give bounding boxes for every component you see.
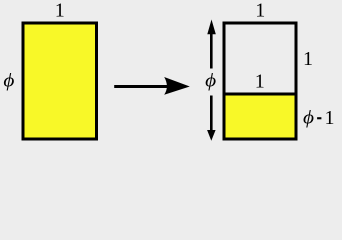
svg-text:ϕ: ϕ	[3, 70, 14, 91]
svg-text:ϕ: ϕ	[303, 107, 314, 128]
svg-text:1: 1	[325, 107, 335, 129]
divider line (splits unit square from remainder)	[223, 93, 298, 96]
right rectangle: yellow lower part (phi - 1)	[224, 94, 296, 139]
svg-text:1: 1	[255, 0, 265, 22]
svg-text:1: 1	[55, 0, 65, 22]
svg-text:1: 1	[255, 71, 265, 93]
vertical double-headed arrow (height phi of right rectangle)	[207, 20, 216, 141]
svg-text:1: 1	[303, 48, 313, 70]
svg-text:ϕ: ϕ	[205, 70, 216, 91]
label phi - 1 (right of yellow remainder)	[303, 107, 335, 129]
left golden rectangle (yellow, 1 x phi)	[23, 23, 97, 139]
arrow (transformation, pointing right)	[114, 77, 190, 95]
right rectangle outline (1 x phi)	[224, 23, 296, 139]
